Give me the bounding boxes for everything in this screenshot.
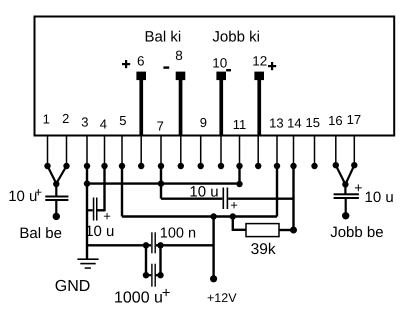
pin 9 lead [200, 136, 202, 166]
wire +12V drop [212, 217, 214, 279]
pin number 7 [157, 119, 164, 134]
wire to C-Jobb-be [344, 184, 346, 193]
wire C-Jobb-be to terminal [345, 199, 347, 216]
wire stub C2 to pin 4 [98, 209, 105, 211]
pin 17 lead [353, 136, 355, 166]
pin 4 lead [104, 136, 106, 166]
wire C5 right rail [159, 245, 161, 275]
svg-text:Jobb ki: Jobb ki [212, 29, 260, 46]
svg-text:+: + [354, 180, 362, 196]
pin 8 output terminal pad [176, 72, 186, 136]
polarity + for C-Jobb-be [354, 180, 362, 196]
wire pin 4 drop [103, 166, 105, 211]
wire pin 11 drop [238, 166, 240, 184]
svg-text:Jobb be: Jobb be [330, 224, 383, 241]
pin number 9 [200, 115, 207, 130]
wire pin 3 ground rail [86, 166, 88, 259]
pin number 11 [233, 117, 247, 132]
svg-text:10 u: 10 u [8, 188, 37, 205]
wire pin 14 drop [292, 166, 294, 230]
polarity + for pin 6 [122, 60, 130, 68]
svg-text:+12V: +12V [207, 291, 237, 305]
pin 10 label [212, 56, 227, 71]
wire pin 13 drop [276, 166, 278, 217]
svg-text:100 n: 100 n [160, 226, 196, 242]
pin number 2 [62, 111, 69, 126]
pin 17 node [351, 162, 357, 168]
node Jobb input junction [342, 181, 348, 187]
pin 5 node [119, 163, 125, 169]
label GND [55, 278, 91, 295]
svg-text:39k: 39k [251, 241, 276, 258]
pin 8 label [175, 48, 183, 63]
wire line D left segment [87, 244, 151, 246]
value label 10 u (Jobb be) [365, 189, 394, 206]
svg-text:+: + [103, 208, 111, 223]
svg-text:3: 3 [81, 115, 88, 130]
pin 6 lead [140, 136, 142, 166]
wire C-Bal-be to terminal [55, 201, 57, 216]
pin number 13 [269, 116, 283, 131]
label Jobb ki [212, 29, 260, 46]
polarity + for C5 [162, 284, 171, 301]
value label 100 n [160, 226, 196, 242]
wire line A pin3 to pin11 [87, 182, 240, 184]
node line D / C5 left tap [143, 242, 149, 248]
pin 10 lead [220, 136, 222, 166]
pin 9 node [198, 163, 204, 169]
wire pins 16-17 merge V [336, 165, 355, 184]
pin 7 node [158, 163, 164, 169]
pin 12 lead [257, 136, 259, 166]
pin 3 node [84, 163, 90, 169]
pin 11 node [236, 163, 242, 169]
polarity - for pin 10 [226, 69, 231, 71]
pin 14 node [290, 163, 296, 169]
wire pin 5 drop [121, 166, 123, 217]
pin 10 output terminal pad [216, 72, 226, 136]
pin 3 lead [86, 136, 88, 166]
pin 11 lead [239, 136, 241, 166]
polarity - for pin 8 [163, 66, 169, 68]
node line C / R1 junction [230, 213, 236, 219]
pin 12 node [255, 163, 261, 169]
IC body U1 [35, 17, 395, 136]
pin number 14 [287, 116, 301, 131]
svg-text:7: 7 [157, 119, 164, 134]
label Bal ki [145, 29, 182, 46]
value label 10 u (C2) [85, 223, 114, 240]
pin 1 lead [47, 136, 49, 166]
pin number 3 [81, 115, 88, 130]
node Jobb be terminal [342, 212, 349, 219]
pin number 15 [306, 115, 320, 130]
svg-text:10 u: 10 u [85, 223, 114, 240]
node line C / +12V junction [210, 213, 216, 219]
ground symbol [77, 258, 98, 268]
svg-text:9: 9 [200, 115, 207, 130]
wire line B left segment [161, 197, 222, 199]
value label 10 u (C3) [189, 183, 218, 200]
wire line B right segment [228, 197, 293, 199]
pin 14 lead [293, 136, 295, 166]
svg-text:10 u: 10 u [365, 189, 394, 206]
polarity + for C-Bal-be [35, 185, 43, 200]
pin 12 label [252, 54, 267, 69]
svg-text:1: 1 [43, 112, 50, 127]
capacitor C5 1000u plates [151, 264, 156, 287]
pin 13 node [274, 163, 280, 169]
wire pins 1-2 merge V [48, 166, 67, 184]
pin 8 lead [180, 136, 182, 166]
pin number 17 [347, 112, 361, 127]
pin number 4 [100, 116, 107, 131]
label Jobb be [330, 224, 383, 241]
pin 16 node [333, 162, 339, 168]
svg-text:15: 15 [306, 115, 320, 130]
value label 39k [251, 241, 276, 258]
node pin3 / line A junction [84, 180, 90, 186]
pin 5 lead [121, 136, 123, 166]
svg-text:GND: GND [55, 278, 91, 295]
wire to C-Bal-be [55, 184, 57, 196]
pin number 1 [43, 112, 50, 127]
svg-text:10: 10 [212, 56, 227, 71]
pin 6 node [138, 163, 144, 169]
svg-text:4: 4 [100, 116, 107, 131]
wire R1 left lead [233, 217, 246, 230]
pin number 16 [328, 113, 342, 128]
capacitor C3 10u plates [223, 188, 229, 210]
node line A / pin 7 junction [158, 180, 164, 186]
pin 4 node [101, 163, 107, 169]
pin 2 node [63, 163, 69, 169]
polarity + for C2 [103, 208, 111, 223]
value label 10 u (Bal be) [8, 188, 37, 205]
node line D / C5 right tap [157, 242, 163, 248]
pin 2 lead [66, 136, 68, 166]
capacitor C2 10u plates [93, 198, 98, 221]
pin 6 label [137, 54, 145, 69]
value label 1000 u [114, 289, 163, 306]
node Bal be terminal [53, 213, 60, 220]
pin 16 lead [335, 136, 337, 166]
svg-text:6: 6 [137, 54, 145, 69]
svg-text:17: 17 [347, 112, 361, 127]
svg-text:+: + [162, 284, 171, 301]
wire stub gnd rail to C2 [87, 209, 93, 211]
node C5 right bottom [157, 272, 163, 278]
wire pin 7 drop [160, 166, 162, 199]
svg-text:2: 2 [62, 111, 69, 126]
polarity + for C3 [230, 198, 238, 213]
wire R1 right lead [279, 229, 294, 231]
svg-text:12: 12 [252, 54, 267, 69]
wire line D right segment [156, 244, 214, 246]
svg-text:14: 14 [287, 116, 301, 131]
svg-text:8: 8 [175, 48, 183, 63]
pin 8 node [178, 163, 184, 169]
pin 15 lead [314, 136, 316, 166]
pin 12 output terminal pad [254, 72, 264, 136]
node +12V terminal [210, 275, 217, 282]
resistor R1 39k body [246, 224, 279, 237]
svg-text:10 u: 10 u [189, 183, 218, 200]
node Bal input junction [53, 181, 59, 187]
capacitor C-Jobb-be 10u plates [334, 193, 359, 199]
wire C5 right stub [155, 274, 160, 276]
svg-text:11: 11 [233, 117, 247, 132]
svg-text:Bal ki: Bal ki [145, 29, 182, 46]
svg-text:16: 16 [328, 113, 342, 128]
label +12V [207, 291, 237, 305]
pin 13 lead [276, 136, 278, 166]
svg-text:5: 5 [119, 113, 126, 128]
svg-text:1000 u: 1000 u [114, 289, 163, 306]
wire C5 left stub [146, 274, 151, 276]
pin number 5 [119, 113, 126, 128]
capacitor C-Bal-be 10u plates [45, 196, 68, 202]
pin 7 lead [160, 136, 162, 166]
capacitor C4 100n plates [151, 232, 156, 253]
node line A / pin 11 junction [236, 181, 242, 187]
pin 10 node [218, 163, 224, 169]
node C5 left bottom [143, 272, 149, 278]
wire C5 left rail [145, 245, 147, 275]
polarity + for pin 12 [268, 62, 276, 70]
svg-text:13: 13 [269, 116, 283, 131]
label Bal be [19, 225, 62, 242]
pin 1 node [44, 163, 50, 169]
pin 6 output terminal pad [136, 72, 146, 136]
node pin 14 / R1 junction [290, 227, 297, 234]
pin 15 node [311, 163, 317, 169]
svg-text:Bal be: Bal be [19, 225, 62, 242]
wire line C pin5 to pin13 [122, 215, 277, 217]
